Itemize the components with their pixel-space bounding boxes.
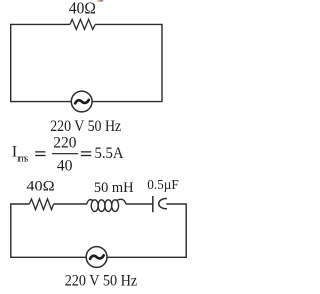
AC source V1 sine symbol: [75, 100, 89, 103]
inductor L1 50 mH (coil loops): [87, 199, 126, 211]
svg-text:rms: rms: [17, 153, 28, 164]
capacitor C1 curved plate: [159, 199, 167, 209]
svg-text:220: 220: [53, 135, 76, 152]
svg-text:0.5µF: 0.5µF: [147, 177, 179, 192]
wire (resistor to inductor): [54, 203, 87, 205]
formula I_rms = 220/40 = 5.5A: [12, 135, 124, 175]
wire (circuit 1 loop: top-left, left, bottom-left segments): [11, 24, 72, 101]
AC source V1 (circle): [71, 91, 92, 112]
resistor R1 40Ω (zigzag): [70, 19, 95, 29]
cropped colored mark (top edge): [98, 0, 105, 2]
svg-text:5.5A: 5.5A: [95, 145, 125, 162]
wire (circuit 2: top-left, left, bottom-left segments): [11, 204, 86, 257]
svg-text:40Ω: 40Ω: [26, 179, 54, 195]
svg-text:50 mH: 50 mH: [94, 180, 134, 196]
svg-text:40: 40: [57, 157, 73, 174]
capacitor C1 0.5µF straight plate: [152, 196, 154, 212]
wire (circuit 1: top-right, right, bottom-right segments): [92, 24, 162, 101]
svg-text:40Ω: 40Ω: [69, 0, 96, 18]
resistor R2 40Ω (zigzag): [29, 199, 53, 210]
wire (circuit 2: bottom-right, right, capacitor-to-corner segments): [107, 204, 186, 257]
wire (inductor to capacitor): [126, 203, 153, 205]
svg-text:220 V 50 Hz: 220 V 50 Hz: [65, 272, 138, 289]
svg-text:220 V 50 Hz: 220 V 50 Hz: [50, 117, 121, 135]
AC source V2 sine symbol: [90, 255, 104, 258]
AC source V2 (circle): [86, 247, 107, 268]
